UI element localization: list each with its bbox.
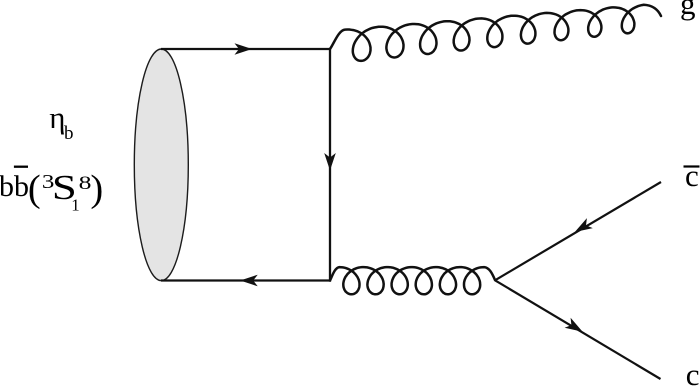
wire cbar quark (up-right)	[495, 182, 661, 280]
arrow on cbar line (toward vertex)	[575, 218, 593, 232]
wire bbar quark (bottom horizontal)	[161, 279, 331, 281]
gluon to ccbar (bottom curly line)	[330, 267, 495, 294]
wire c quark (down-right)	[495, 280, 661, 379]
svg-text:g: g	[680, 0, 696, 21]
wire b propagator (vertical)	[329, 48, 331, 282]
meson blob (eta_b bound state)	[134, 49, 188, 281]
svg-text:1: 1	[71, 196, 80, 215]
arrow on vertical propagator (down)	[324, 153, 336, 171]
svg-text:b: b	[64, 123, 74, 144]
svg-text:bb: bb	[0, 170, 29, 203]
arrow on b quark line (right)	[235, 43, 253, 55]
wire b quark (top horizontal)	[161, 48, 331, 50]
svg-text:c: c	[685, 158, 699, 193]
arrow on bbar quark line (left)	[240, 275, 258, 287]
arrow on c line (away from vertex)	[565, 318, 583, 332]
svg-text:): )	[90, 168, 103, 210]
gluon g (top curly line)	[330, 5, 661, 61]
svg-text:(: (	[28, 168, 41, 210]
svg-text:c: c	[686, 357, 700, 388]
